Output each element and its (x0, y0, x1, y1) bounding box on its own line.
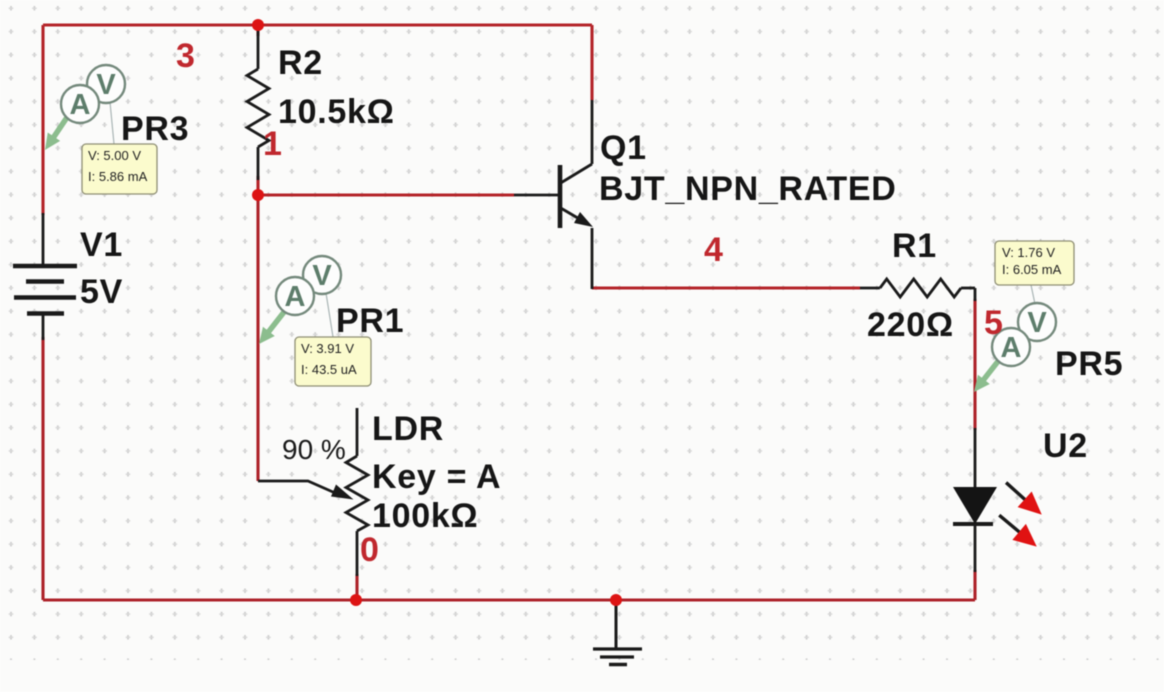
svg-text:I: 43.5 uA: I: 43.5 uA (301, 362, 357, 377)
svg-text:BJT_NPN_RATED: BJT_NPN_RATED (599, 170, 897, 208)
svg-text:R1: R1 (892, 227, 937, 265)
svg-text:V: 1.76 V: V: 1.76 V (1002, 245, 1055, 260)
svg-text:90 %: 90 % (282, 434, 346, 465)
svg-text:0: 0 (360, 531, 379, 569)
svg-text:V: 3.91 V: V: 3.91 V (301, 341, 354, 356)
svg-text:I: 6.05 mA: I: 6.05 mA (1002, 262, 1062, 277)
svg-text:A: A (1001, 332, 1022, 364)
svg-text:U2: U2 (1043, 427, 1088, 465)
svg-text:220Ω: 220Ω (867, 306, 954, 344)
svg-text:3: 3 (176, 37, 195, 75)
svg-text:V1: V1 (80, 226, 123, 264)
svg-text:Key = A: Key = A (372, 458, 501, 496)
svg-text:A: A (285, 281, 306, 313)
svg-text:LDR: LDR (372, 410, 444, 448)
svg-text:100kΩ: 100kΩ (372, 497, 478, 535)
svg-text:PR3: PR3 (121, 110, 189, 148)
svg-text:V: 5.00 V: V: 5.00 V (88, 148, 141, 163)
svg-text:10.5kΩ: 10.5kΩ (278, 93, 395, 131)
svg-text:V: V (312, 260, 332, 292)
svg-text:PR5: PR5 (1055, 345, 1123, 383)
svg-text:5: 5 (984, 304, 1003, 342)
svg-text:V: V (1027, 307, 1047, 339)
svg-text:PR1: PR1 (336, 302, 404, 340)
svg-text:I: 5.86 mA: I: 5.86 mA (88, 169, 148, 184)
svg-text:R2: R2 (278, 44, 323, 82)
svg-text:5V: 5V (80, 273, 123, 311)
svg-text:V: V (96, 69, 116, 101)
svg-text:Q1: Q1 (600, 129, 647, 167)
svg-text:4: 4 (704, 231, 723, 269)
svg-text:A: A (70, 89, 91, 121)
